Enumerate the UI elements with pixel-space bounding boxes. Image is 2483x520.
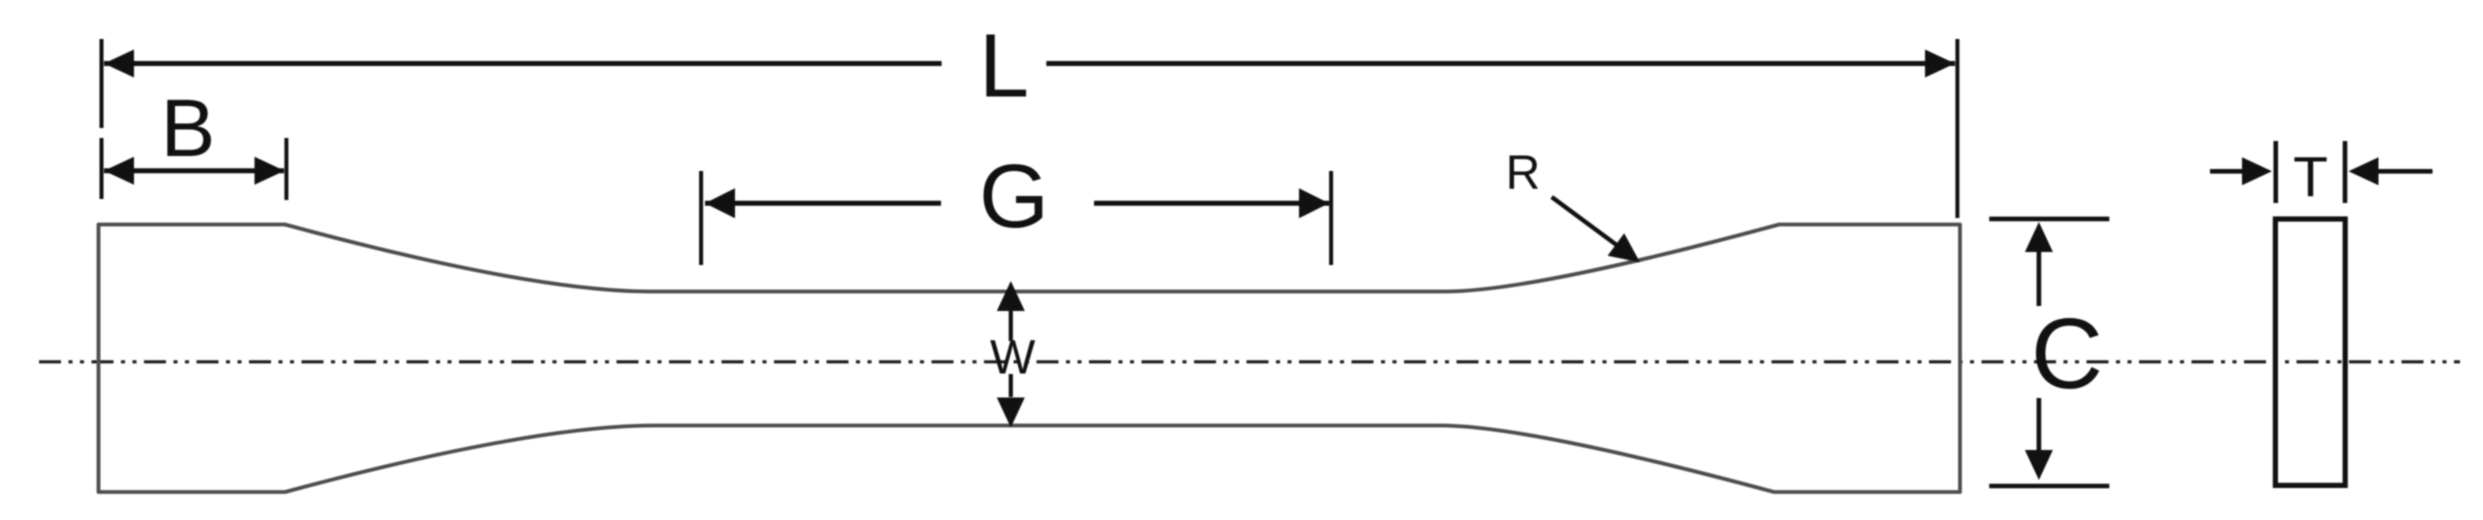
dimension G line left segment bbox=[705, 201, 941, 206]
dimension T left arrowhead bbox=[2242, 157, 2272, 185]
dimension L arrowhead left bbox=[104, 50, 134, 78]
dimension C down arrow shaft bbox=[2037, 398, 2042, 450]
dimension T right line bbox=[2378, 169, 2433, 174]
dimension W up arrowhead bbox=[997, 281, 1025, 311]
svg-text:L: L bbox=[979, 17, 1029, 117]
dimension T tick right bbox=[2343, 141, 2348, 203]
dimension L extension line left upper bbox=[100, 39, 104, 128]
dimension G extension tick left bbox=[699, 171, 703, 265]
centerline bbox=[39, 360, 2460, 363]
dimension T tick left bbox=[2273, 141, 2278, 203]
dimension G extension tick right bbox=[1329, 171, 1333, 265]
svg-text:W: W bbox=[990, 332, 1036, 385]
dimension W up arrow shaft bbox=[1009, 311, 1013, 341]
svg-text:B: B bbox=[161, 83, 216, 174]
dimension C top tick bbox=[1989, 217, 2109, 222]
svg-text:G: G bbox=[979, 147, 1049, 247]
svg-text:C: C bbox=[2031, 298, 2103, 410]
dimension T left line bbox=[2210, 169, 2243, 174]
dimension C up arrowhead bbox=[2025, 222, 2053, 252]
dimension B extension tick right bbox=[284, 138, 288, 200]
dimension B line bbox=[104, 168, 284, 173]
dimension B arrowhead right bbox=[255, 157, 285, 185]
svg-text:T: T bbox=[2293, 145, 2328, 209]
svg-text:R: R bbox=[1506, 147, 1541, 200]
dimension L extension line right bbox=[1955, 39, 1959, 218]
dimension T right arrowhead bbox=[2349, 157, 2379, 185]
end view rectangle (side/thickness view) bbox=[2275, 219, 2345, 485]
dimension B arrowhead left bbox=[104, 157, 134, 185]
dimension L extension line left lower / B extension bbox=[100, 138, 104, 199]
dimension G line right segment bbox=[1094, 201, 1329, 206]
dimension W down arrow shaft bbox=[1009, 374, 1013, 397]
dimension L line left segment bbox=[104, 61, 942, 66]
dimension C bottom tick bbox=[1989, 484, 2109, 489]
dimension C up arrow shaft bbox=[2037, 252, 2042, 306]
R leader line bbox=[1552, 197, 1620, 248]
dimension L line right segment bbox=[1046, 61, 1955, 66]
dimension G arrowhead left bbox=[705, 188, 735, 218]
dimension G arrowhead right bbox=[1299, 188, 1329, 218]
dimension L arrowhead right bbox=[1925, 50, 1955, 78]
dimension C down arrowhead bbox=[2025, 450, 2053, 480]
R leader arrowhead bbox=[1608, 233, 1640, 262]
dimension W down arrowhead bbox=[997, 398, 1025, 428]
specimen outline (front view dog-bone) bbox=[99, 225, 1961, 493]
